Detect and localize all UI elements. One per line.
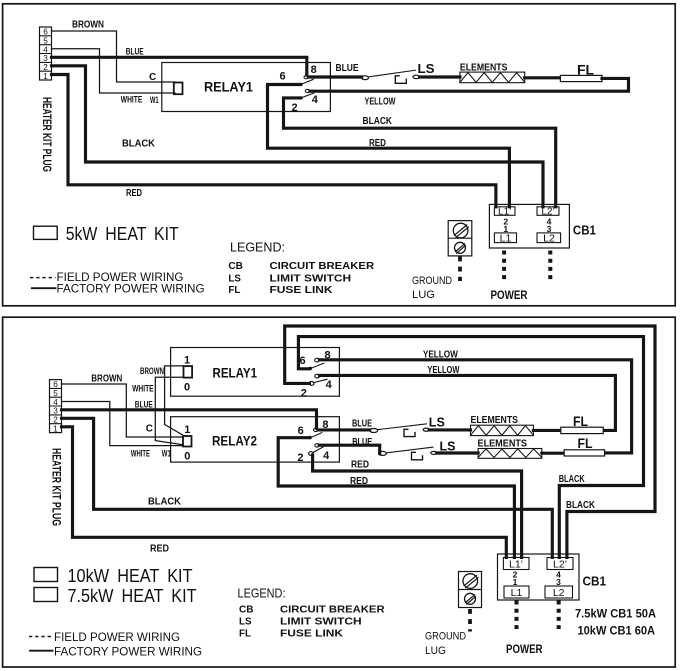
svg-text:0: 0 <box>184 381 190 393</box>
svg-text:CB: CB <box>228 260 243 272</box>
svg-text:ELEMENTS: ELEMENTS <box>478 438 528 449</box>
svg-text:POWER: POWER <box>491 288 528 302</box>
ground lug GL2 divider <box>459 589 482 591</box>
CB2 terminal L2' box <box>547 558 573 570</box>
wire red: relay2 pin6 to CB1 L1' <box>278 438 514 558</box>
relay U2 pin 8 contact (fixed, open circle) <box>315 358 320 362</box>
svg-text:RELAY1: RELAY1 <box>204 80 253 95</box>
wire yellow: FL around to relay1 pin4 <box>310 78 629 91</box>
field wiring dash below ground lug GL2 <box>468 609 472 632</box>
wire red: plug pin1 to CB1 L1' <box>62 427 507 558</box>
svg-text:FACTORY POWER WIRING: FACTORY POWER WIRING <box>54 646 202 658</box>
5kW heat kit checkbox <box>34 226 58 239</box>
wire black: plug pin2 to CB1 L2' <box>62 418 553 557</box>
limit switch LS left contact <box>362 76 369 80</box>
panel border top <box>3 4 676 306</box>
relay U3 RELAY2 box <box>171 417 340 462</box>
wire blue: relay2 pin8 to LS1 <box>318 428 370 431</box>
heating element E1 zigzag <box>460 73 525 83</box>
wire white: relay1 coil to relay2 coil <box>155 377 183 445</box>
svg-text:L1: L1 <box>500 232 512 244</box>
relay1 blade 2-4 <box>301 93 314 98</box>
svg-text:LEGEND:: LEGEND: <box>238 587 286 601</box>
relay U3 pin 4 contact (fixed, open circle) <box>315 444 319 447</box>
svg-text:POWER: POWER <box>506 642 543 656</box>
svg-text:RED: RED <box>351 459 369 470</box>
svg-text:2: 2 <box>53 416 58 425</box>
svg-text:CIRCUIT BREAKER: CIRCUIT BREAKER <box>270 260 375 272</box>
svg-text:RED: RED <box>150 543 169 555</box>
circuit breaker CB2 outer box <box>498 554 580 600</box>
heating element E2 zigzag <box>471 426 534 436</box>
svg-text:LS: LS <box>228 272 241 284</box>
svg-text:RED: RED <box>350 476 368 487</box>
svg-text:L1: L1 <box>511 587 523 599</box>
svg-text:LS: LS <box>429 416 445 430</box>
svg-text:ELEMENTS: ELEMENTS <box>471 415 519 426</box>
svg-text:WHITE: WHITE <box>132 383 154 394</box>
svg-text:7.5kW HEAT KIT: 7.5kW HEAT KIT <box>68 586 197 606</box>
svg-text:6: 6 <box>300 355 306 367</box>
relay U3 coil terminal box <box>183 436 192 447</box>
svg-text:1: 1 <box>43 72 48 81</box>
svg-text:WHITE: WHITE <box>131 449 150 460</box>
wire blue: plug pin3 to relay1 contact 8 <box>52 57 307 75</box>
svg-text:YELLOW: YELLOW <box>423 350 458 361</box>
svg-text:2: 2 <box>292 102 298 114</box>
svg-text:RELAY2: RELAY2 <box>212 434 257 449</box>
svg-text:RELAY1: RELAY1 <box>213 366 258 381</box>
svg-text:5: 5 <box>43 37 48 46</box>
svg-text:BLUE: BLUE <box>352 437 372 448</box>
svg-text:L2: L2 <box>553 587 565 599</box>
CB1 terminal L2 box <box>537 233 561 243</box>
heating element E3 zigzag <box>478 449 541 458</box>
svg-text:LS: LS <box>418 62 435 76</box>
relay U3 pin 2 moving contact ring <box>309 452 314 456</box>
wire LS2 to elements E3 <box>437 451 478 454</box>
relay U1 RELAY1 box <box>162 63 331 112</box>
CB2 terminal L2 box <box>545 586 573 598</box>
svg-text:BLACK: BLACK <box>566 500 596 511</box>
wire blue: relay1 pin8 to limit switch LS <box>308 75 361 78</box>
field wiring dash below L1 (bottom) <box>515 601 519 630</box>
svg-text:4: 4 <box>312 94 319 106</box>
svg-text:BLUE: BLUE <box>352 419 372 430</box>
svg-text:C: C <box>149 72 156 83</box>
svg-text:LEGEND:: LEGEND: <box>230 241 285 255</box>
relay U2 RELAY1 box (bottom) <box>171 348 340 397</box>
svg-text:LUG: LUG <box>412 289 435 301</box>
field power wiring dash sample <box>30 277 56 279</box>
svg-text:L2: L2 <box>543 232 555 244</box>
wire red: relay2 pin2 to CB1 L1' <box>313 455 522 557</box>
svg-text:FL: FL <box>578 435 593 451</box>
relay U2 blade 6-8 <box>311 363 324 368</box>
svg-text:LUG: LUG <box>425 645 446 657</box>
field power wiring dash sample (bottom) <box>29 636 53 638</box>
svg-text:HEATER KIT PLUG: HEATER KIT PLUG <box>49 448 61 526</box>
svg-text:BLUE: BLUE <box>336 63 359 74</box>
svg-text:1: 1 <box>53 424 58 433</box>
svg-text:1: 1 <box>184 354 190 366</box>
svg-text:FIELD POWER WIRING: FIELD POWER WIRING <box>54 632 180 644</box>
svg-text:HEATER KIT PLUG: HEATER KIT PLUG <box>40 97 52 172</box>
heating element E1 box <box>460 72 525 83</box>
relay U2 pin 2 moving contact ring <box>309 382 314 386</box>
fuse link FL body <box>560 75 602 81</box>
svg-text:FACTORY POWER WIRING: FACTORY POWER WIRING <box>57 284 205 296</box>
ground lug GL2 box <box>459 572 482 608</box>
factory power wiring solid sample (bottom) <box>30 650 53 652</box>
svg-text:10kW CB1 60A: 10kW CB1 60A <box>578 625 656 637</box>
relay1 pin 6 moving contact dot <box>299 83 302 86</box>
plug J2 cell dividers <box>50 388 62 423</box>
ground lug GL2 screw 2 <box>465 593 476 604</box>
limit switch LS blade <box>368 70 415 77</box>
fuse link FL1 body <box>561 427 603 433</box>
svg-text:LIMIT SWITCH: LIMIT SWITCH <box>280 616 362 628</box>
svg-text:2: 2 <box>43 63 48 72</box>
svg-text:5kW HEAT KIT: 5kW HEAT KIT <box>66 224 179 244</box>
wire elements E3 to FL2 <box>542 452 564 455</box>
svg-text:L1’: L1’ <box>509 558 523 570</box>
svg-text:0: 0 <box>184 451 190 463</box>
svg-text:CB1: CB1 <box>583 575 607 589</box>
ground lug screw 1 <box>453 223 468 238</box>
svg-text:FIELD POWER WIRING: FIELD POWER WIRING <box>57 272 184 284</box>
heater kit plug J1 connector body <box>40 27 52 80</box>
wire brown: plug pin6 to relay1 coil C terminal <box>52 31 176 82</box>
svg-text:FL: FL <box>239 628 252 640</box>
ground lug GL1 divider <box>448 237 472 239</box>
wire yellow: relay1 pin8 to FL2 (via right side) <box>319 360 631 453</box>
ground screw 2 slot <box>456 244 466 253</box>
heating element E3 box <box>478 449 542 459</box>
svg-text:YELLOW: YELLOW <box>365 97 396 108</box>
relay U2 pin 4 contact (fixed, open circle) <box>315 374 320 378</box>
relay U3 pin 6 moving contact dot <box>308 436 312 440</box>
svg-text:8: 8 <box>311 64 317 76</box>
svg-text:2: 2 <box>301 388 307 400</box>
svg-text:2: 2 <box>297 452 303 464</box>
svg-text:FUSE LINK: FUSE LINK <box>270 284 333 296</box>
wire brown: relay1 coil to relay2 coil (common) <box>165 366 184 436</box>
CB2 terminal L1 box <box>504 586 529 598</box>
limit switch LS right contact <box>413 75 420 78</box>
relay1 coil terminal box <box>174 83 183 95</box>
limit switch LS1 right contact <box>423 428 429 431</box>
relay U3 pin 8 contact (fixed, open circle) <box>314 428 318 431</box>
svg-text:1: 1 <box>184 424 190 436</box>
svg-text:6: 6 <box>53 380 58 389</box>
svg-text:CB: CB <box>239 604 254 616</box>
CB1 terminal L2' box <box>537 207 559 216</box>
wire black: relay1 pin2 to CB1 L2' <box>284 98 556 207</box>
svg-text:BLACK: BLACK <box>559 474 586 485</box>
plug J1 cell dividers <box>40 36 52 71</box>
relay U3 blade 2-4 <box>313 447 324 453</box>
field wiring dash below ground lug <box>458 257 462 282</box>
fuse link FL2 body <box>564 450 604 456</box>
svg-text:4: 4 <box>53 398 58 407</box>
svg-text:6: 6 <box>298 425 304 437</box>
limit switch LS2 right contact <box>431 451 437 454</box>
svg-text:BROWN: BROWN <box>91 373 122 385</box>
svg-text:W1: W1 <box>150 95 159 106</box>
wire black: relay1 pin2 to CB1 L2' (via far right) <box>285 326 655 557</box>
svg-text:FL: FL <box>228 284 241 296</box>
limit switch LS2 left contact <box>378 451 386 455</box>
svg-text:3: 3 <box>53 407 58 416</box>
wire black: relay1 pin6 to CB1 L2' (via top right) <box>298 337 643 558</box>
wire brown: plug pin6 to relay2 coil terminal <box>62 384 184 437</box>
svg-text:4: 4 <box>323 450 330 462</box>
CB2 terminal L1' box <box>503 558 529 570</box>
relay U3 blade 6-8 <box>310 433 322 439</box>
field wiring dash below L1 <box>502 251 506 281</box>
svg-text:RED: RED <box>126 187 142 199</box>
ground screw 1 slot (GL2) <box>464 576 478 588</box>
factory power wiring solid sample <box>32 287 56 289</box>
svg-text:W1: W1 <box>162 449 171 460</box>
ground lug screw 2 <box>455 242 466 253</box>
svg-text:4: 4 <box>326 379 333 391</box>
svg-text:BLACK: BLACK <box>148 496 181 508</box>
svg-text:GROUND: GROUND <box>425 630 466 642</box>
svg-text:6: 6 <box>280 71 286 83</box>
ground lug GL2 screw 1 <box>463 574 478 589</box>
wire elements E2 to FL1 <box>533 429 560 432</box>
relay1 pin 2 moving contact dot <box>299 96 302 99</box>
svg-text:WHITE: WHITE <box>121 95 143 106</box>
wire yellow: relay1 pin4 to FL1 (via right side) <box>320 375 616 430</box>
svg-text:BROWN: BROWN <box>140 366 164 377</box>
svg-text:10kW HEAT KIT: 10kW HEAT KIT <box>68 566 193 586</box>
relay1 pin 4 contact (fixed, open circle) <box>305 89 310 92</box>
wire blue: relay2 pin4 to LS2 <box>319 445 380 453</box>
svg-text:5: 5 <box>53 389 58 398</box>
svg-text:BLACK: BLACK <box>122 138 155 150</box>
svg-text:4: 4 <box>43 45 48 54</box>
limit switch LS1 actuator bracket <box>404 429 415 436</box>
wire blue: plug pin3 to relay2 contact 8 <box>62 410 317 428</box>
limit switch LS1 left contact <box>370 429 378 433</box>
wire white: plug pin4 to relay2 coil terminal <box>62 402 184 446</box>
field wiring dash below L2 (bottom) <box>557 601 561 630</box>
svg-text:LIMIT SWITCH: LIMIT SWITCH <box>270 272 352 284</box>
relay U2 coil terminal box <box>184 366 193 378</box>
10kW heat kit checkbox <box>34 568 58 582</box>
svg-text:BLUE: BLUE <box>126 46 144 57</box>
wire red: relay1 pin6 to CB1 L1' <box>268 85 510 207</box>
CB1 terminal L1' box <box>494 207 515 216</box>
svg-text:BLACK: BLACK <box>363 116 393 127</box>
svg-text:FUSE LINK: FUSE LINK <box>280 628 343 640</box>
panel border bottom <box>3 317 676 667</box>
limit switch LS1 blade <box>378 424 426 430</box>
svg-text:LS: LS <box>239 616 252 628</box>
svg-text:FL: FL <box>577 62 594 78</box>
heating element E2 box <box>471 425 534 435</box>
ground screw 1 slot <box>454 225 468 237</box>
wire red: plug pin1 to CB1 L1' <box>52 75 496 207</box>
relay1 pin 8 contact (fixed, open circle) <box>304 76 308 79</box>
svg-text:C: C <box>146 423 153 434</box>
relay U2 blade 2-4 <box>314 379 327 382</box>
relay1 blade 6-8 <box>301 79 313 84</box>
svg-text:YELLOW: YELLOW <box>427 365 459 376</box>
svg-text:ELEMENTS: ELEMENTS <box>460 62 508 73</box>
wire black: plug pin2 to CB1 L2' <box>52 66 544 207</box>
svg-text:FL: FL <box>573 413 588 429</box>
limit switch LS actuator bracket <box>395 76 406 84</box>
limit switch LS2 actuator bracket <box>412 452 423 460</box>
wire LS to elements <box>420 75 460 78</box>
svg-text:L2’: L2’ <box>553 558 567 570</box>
wire white: plug pin4 to relay1 coil W1 terminal <box>52 49 176 93</box>
svg-text:CB1: CB1 <box>573 224 596 238</box>
ground lug GL1 box <box>448 221 472 256</box>
wire LS1 to elements E2 <box>429 428 470 431</box>
circuit breaker CB1 outer box <box>489 204 569 248</box>
svg-text:3: 3 <box>43 54 48 63</box>
svg-text:LS: LS <box>440 439 456 453</box>
svg-text:CIRCUIT BREAKER: CIRCUIT BREAKER <box>280 604 385 616</box>
svg-text:GROUND: GROUND <box>412 275 452 287</box>
7.5kW heat kit checkbox <box>34 588 58 602</box>
ground screw 2 slot (GL2) <box>466 595 476 604</box>
heater kit plug J2 connector body <box>50 380 62 433</box>
field wiring dash below L2 <box>548 251 552 281</box>
svg-text:BLUE: BLUE <box>135 399 153 410</box>
relay U2 pin 6 moving contact dot <box>309 367 313 371</box>
svg-text:BROWN: BROWN <box>72 19 104 31</box>
limit switch LS2 blade <box>386 447 433 453</box>
svg-text:RED: RED <box>369 138 386 149</box>
svg-text:7.5kW CB1 50A: 7.5kW CB1 50A <box>575 608 656 620</box>
CB1 terminal L1 box <box>494 233 516 243</box>
svg-text:6: 6 <box>43 28 48 37</box>
wire elements to fuse link FL <box>525 76 561 79</box>
